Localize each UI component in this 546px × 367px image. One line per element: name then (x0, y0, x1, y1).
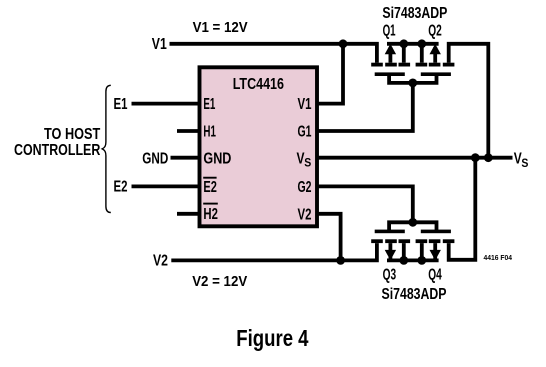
svg-text:GND: GND (142, 151, 168, 168)
svg-text:V2 = 12V: V2 = 12V (192, 273, 247, 290)
svg-text:V2: V2 (153, 253, 168, 270)
svg-text:LTC4416: LTC4416 (233, 76, 284, 93)
svg-text:V1: V1 (152, 36, 167, 53)
svg-text:Si7483ADP: Si7483ADP (382, 5, 447, 22)
wire G1 to gates (317, 83, 413, 131)
wire E1 (132, 102, 200, 106)
svg-text:S: S (304, 158, 311, 170)
svg-text:H1: H1 (203, 124, 216, 141)
svg-text:Q2: Q2 (428, 23, 442, 40)
node junction VS up (484, 153, 493, 162)
node junction Q3 source (399, 256, 408, 265)
transistor Q1 (371, 44, 410, 76)
wire GND (171, 156, 200, 160)
svg-text:V2: V2 (298, 206, 312, 223)
svg-text:4416 F04: 4416 F04 (484, 253, 513, 262)
node junction gate bottom (408, 218, 417, 227)
svg-text:G2: G2 (298, 179, 312, 196)
svg-text:GND: GND (203, 151, 231, 168)
svg-text:G1: G1 (298, 124, 312, 141)
wire V2 rail to Q3 drain (171, 243, 377, 260)
wire Q1 Q2 gate tie (389, 75, 436, 83)
wire common source mid-line top (387, 42, 439, 46)
svg-text:E1: E1 (203, 96, 215, 113)
svg-text:E2: E2 (203, 179, 217, 196)
wire V1 pin to rail (317, 44, 343, 104)
svg-text:V1: V1 (298, 96, 312, 113)
transistor Q2 (416, 44, 455, 76)
svg-text:E1: E1 (114, 96, 128, 113)
wire G2 to gates (317, 186, 413, 222)
wire Q2 drain to VS (449, 44, 489, 158)
svg-text:Figure 4: Figure 4 (236, 325, 308, 351)
wire Q3 Q4 gate tie (389, 222, 436, 230)
svg-text:Q3: Q3 (383, 267, 397, 284)
transistor Q4 (416, 230, 455, 261)
svg-text:CONTROLLER: CONTROLLER (14, 142, 101, 159)
svg-text:Q4: Q4 (428, 267, 442, 284)
wire Q4 drain to VS (449, 158, 476, 260)
node junction V1 rail (339, 39, 348, 48)
svg-text:TO HOST: TO HOST (44, 126, 100, 143)
wire H2 stub (177, 212, 199, 216)
svg-text:E2: E2 (114, 179, 128, 196)
node junction VS down (471, 153, 480, 162)
node junction V2 rail (336, 256, 345, 265)
node junction Q4 source (417, 256, 426, 265)
wire VS output (317, 156, 513, 160)
wire E2 (132, 184, 200, 188)
node junction gate top (408, 79, 417, 88)
wire V1 rail to Q1 drain (170, 44, 377, 63)
svg-text:V1 = 12V: V1 = 12V (193, 19, 248, 36)
transistor Q3 (371, 230, 410, 261)
svg-text:Si7483ADP: Si7483ADP (382, 286, 447, 303)
brace TO HOST CONTROLLER (102, 85, 111, 212)
wire common source mid-line bottom (387, 258, 439, 262)
wire H1 stub (177, 129, 199, 133)
op-amp U1 LTC4416 IC body (200, 67, 318, 226)
node junction Q1 source (399, 39, 408, 48)
wire V2 pin to rail (317, 214, 341, 261)
node junction Q2 source (417, 39, 426, 48)
svg-text:S: S (521, 158, 528, 170)
svg-text:H2: H2 (203, 206, 218, 223)
svg-text:Q1: Q1 (383, 23, 396, 40)
